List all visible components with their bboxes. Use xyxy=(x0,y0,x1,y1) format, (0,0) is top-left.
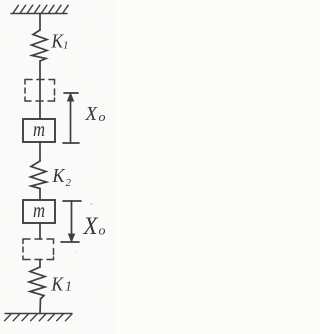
label X0 (upper) xyxy=(85,103,106,125)
spring K2 xyxy=(31,161,47,189)
dimension arrow X0 (lower), double-capped with down arrowhead xyxy=(61,201,81,242)
dashed box, equilibrium position of upper mass xyxy=(25,80,55,102)
label K1 (bottom spring) xyxy=(51,274,72,296)
mass m (lower) xyxy=(23,200,55,223)
dimension arrow X0 (upper), double-capped with up arrowhead xyxy=(63,93,79,143)
wire mass to spring K2 xyxy=(39,142,41,161)
wire dashed box to spring K1 (bottom) xyxy=(39,260,41,268)
spring K1 (bottom) xyxy=(29,267,45,299)
label K1 (top spring) xyxy=(51,31,69,53)
wire spring K2 to lower mass xyxy=(39,189,41,201)
wire lower mass to dashed box xyxy=(39,223,41,239)
mass m (upper) xyxy=(23,119,55,142)
label X0 (lower) xyxy=(83,213,106,240)
wire ceiling to spring K1 xyxy=(39,14,41,31)
spring K1 (top) xyxy=(32,30,48,61)
ceiling support xyxy=(11,5,68,13)
dashed box, equilibrium position of lower mass xyxy=(23,239,54,260)
wire spring to floor xyxy=(39,299,42,314)
wire spring K1 to mass (through dashed box) xyxy=(39,61,41,119)
floor support xyxy=(5,314,73,321)
label K2 (middle spring) xyxy=(52,165,72,189)
scan noise overlay xyxy=(0,0,1,1)
